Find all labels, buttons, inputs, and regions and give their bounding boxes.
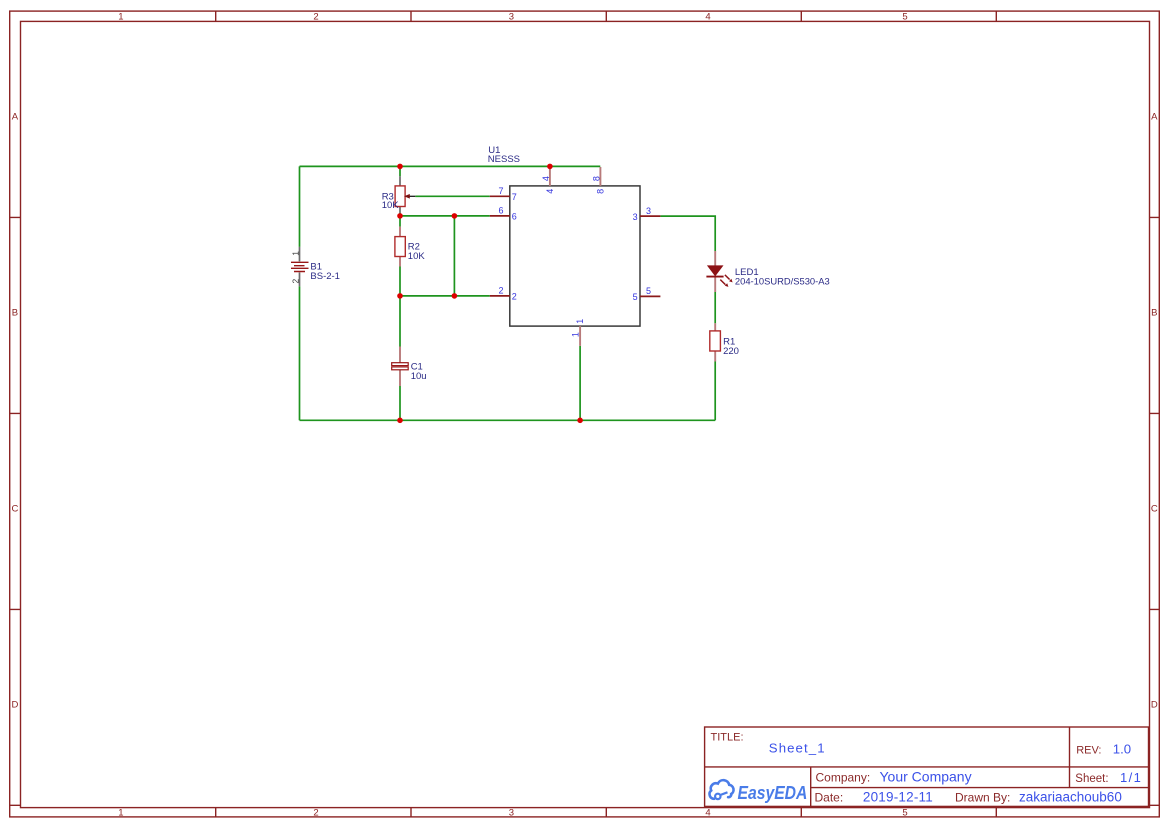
svg-text:8: 8 (591, 176, 601, 181)
junction: R3 bottom / pin 6 net (397, 213, 403, 219)
svg-text:10K: 10K (382, 200, 400, 211)
svg-text:1: 1 (118, 12, 123, 23)
svg-text:4: 4 (541, 176, 551, 181)
svg-text:2: 2 (498, 286, 503, 296)
op-amp U1 NESSS body (510, 186, 640, 326)
svg-text:Drawn By:: Drawn By: (955, 790, 1010, 804)
svg-text:NESSS: NESSS (488, 154, 520, 165)
svg-text:2: 2 (290, 279, 300, 284)
wire: C1 bottom to ground rail (399, 386, 401, 420)
svg-text:B: B (12, 307, 18, 318)
svg-text:Sheet_1: Sheet_1 (769, 740, 826, 755)
svg-text:Sheet:: Sheet: (1075, 773, 1108, 785)
svg-text:4: 4 (705, 808, 710, 819)
svg-text:Your Company: Your Company (880, 768, 972, 784)
svg-text:6: 6 (512, 212, 517, 222)
svg-text:7: 7 (498, 186, 503, 196)
svg-text:D: D (11, 699, 18, 710)
junction: pin 2 net mid link (452, 293, 458, 299)
svg-text:C: C (1151, 503, 1158, 514)
svg-text:2019-12-11: 2019-12-11 (863, 789, 933, 804)
svg-text:TITLE:: TITLE: (711, 731, 744, 743)
svg-text:7: 7 (512, 192, 517, 202)
svg-text:zakariaachoub60: zakariaachoub60 (1019, 789, 1122, 804)
battery B1 (290, 247, 340, 286)
svg-text:Company:: Company: (816, 770, 871, 784)
LED1 (706, 251, 829, 292)
wire: pin 6 horizontal (400, 215, 490, 217)
svg-text:B: B (1151, 307, 1157, 318)
svg-text:REV:: REV: (1076, 744, 1101, 756)
wire: R2 bottom to node (399, 267, 401, 296)
pin 3 (633, 206, 661, 222)
svg-text:4: 4 (545, 189, 555, 194)
svg-text:EasyEDA: EasyEDA (738, 782, 808, 804)
wire: left battery branch (299, 166, 301, 420)
pin 7 (490, 186, 517, 202)
wire: bottom ground rail (300, 419, 716, 421)
wire: pin 3 to LED (660, 216, 715, 251)
junction: C1 bottom on ground rail (397, 418, 403, 424)
svg-text:5: 5 (902, 12, 907, 23)
wire: R1 to ground rail (714, 362, 716, 421)
capacitor C1 (392, 347, 427, 387)
pin 4 (541, 167, 555, 194)
wire: pin 2 horizontal (400, 295, 490, 297)
svg-text:3: 3 (646, 206, 651, 216)
svg-text:5: 5 (902, 808, 907, 819)
wire: R3 top to VCC (399, 166, 401, 176)
svg-text:10K: 10K (408, 251, 426, 262)
EasyEDA logo (710, 780, 808, 803)
svg-text:2: 2 (313, 12, 318, 23)
svg-text:A: A (12, 111, 19, 122)
svg-text:2: 2 (313, 808, 318, 819)
pin 8 (591, 167, 605, 194)
junction: pin 4 on VCC rail (547, 164, 553, 170)
svg-text:A: A (1151, 111, 1158, 122)
pin 1 (571, 319, 585, 346)
wire: node to C1 top (399, 296, 401, 347)
svg-text:C: C (11, 503, 18, 514)
svg-text:2: 2 (512, 292, 517, 302)
wire: pin 1 to ground rail (579, 346, 581, 420)
svg-text:1: 1 (575, 319, 585, 324)
svg-text:1: 1 (290, 251, 300, 256)
title block (705, 727, 1149, 806)
wire: LED to R1 (714, 292, 716, 323)
svg-text:204-10SURD/S530-A3: 204-10SURD/S530-A3 (735, 275, 830, 286)
svg-text:3: 3 (509, 12, 514, 23)
svg-text:1: 1 (571, 332, 581, 337)
junction: R2 bottom / pin 2 net (397, 293, 403, 299)
svg-text:BS-2-1: BS-2-1 (310, 271, 340, 282)
svg-text:1: 1 (118, 808, 123, 819)
svg-text:1/1: 1/1 (1120, 770, 1142, 785)
pin 6 (490, 206, 517, 222)
junction: pin 6 net mid link (452, 213, 458, 219)
pin 5 (633, 286, 661, 302)
svg-text:3: 3 (633, 212, 638, 222)
svg-text:Date:: Date: (815, 790, 844, 804)
wire: VCC top rail (300, 165, 601, 167)
svg-text:5: 5 (646, 286, 651, 296)
svg-text:D: D (1151, 699, 1158, 710)
svg-text:8: 8 (596, 189, 606, 194)
resistor R3 (potentiometer) (382, 176, 416, 213)
wire: R3 bottom to R2 top node (399, 213, 401, 227)
resistor R1 (710, 323, 739, 361)
resistor R2 (395, 227, 425, 267)
svg-text:5: 5 (633, 292, 638, 302)
svg-text:6: 6 (498, 206, 503, 216)
svg-text:4: 4 (705, 12, 710, 23)
wire: pin 7 to R3 wiper (415, 195, 490, 197)
svg-text:3: 3 (509, 808, 514, 819)
svg-text:10u: 10u (411, 371, 427, 382)
svg-text:1.0: 1.0 (1113, 741, 1131, 756)
pin 2 (490, 286, 517, 302)
junction: pin 1 on ground rail (577, 418, 583, 424)
wire: pin6-pin2 vertical link (453, 216, 455, 296)
svg-text:220: 220 (723, 346, 739, 357)
junction: R3 top on VCC rail (397, 164, 403, 170)
